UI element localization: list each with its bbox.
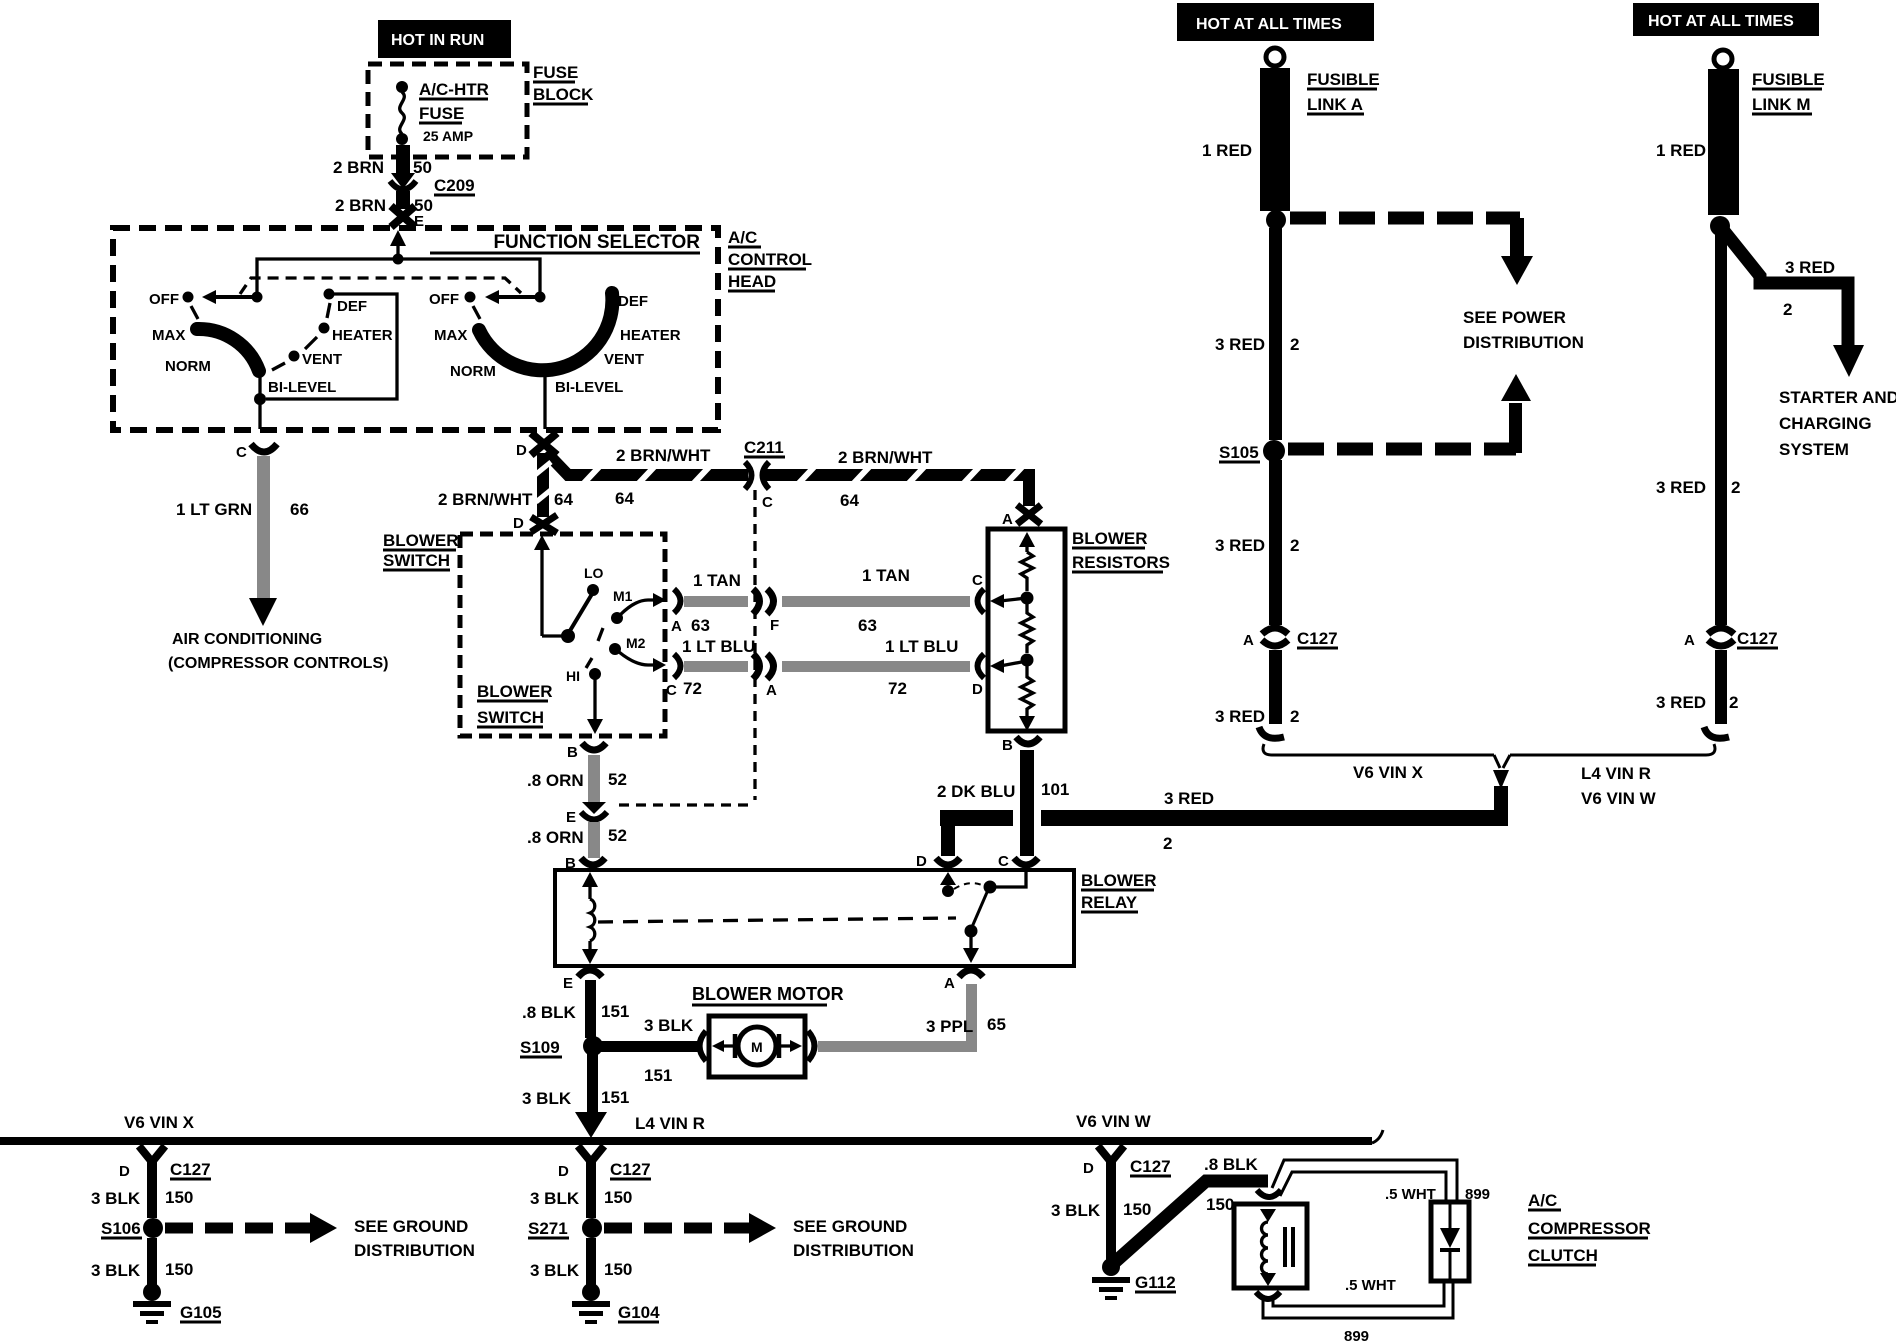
- svg-text:3 RED: 3 RED: [1656, 478, 1706, 497]
- svg-text:.8 ORN: .8 ORN: [527, 828, 584, 847]
- svg-text:DISTRIBUTION: DISTRIBUTION: [354, 1241, 475, 1260]
- wire .8 ORN 52 lower: [588, 822, 600, 858]
- exit arrow to B: [1019, 716, 1035, 731]
- dashed lead to ground distribution mid: [604, 1223, 749, 1234]
- svg-text:150: 150: [604, 1260, 632, 1279]
- connector A at blower resistors: [1017, 505, 1041, 524]
- svg-text:BI-LEVEL: BI-LEVEL: [268, 379, 336, 396]
- svg-text:(COMPRESSOR CONTROLS): (COMPRESSOR CONTROLS): [168, 655, 388, 672]
- coil exit arrow: [1260, 1273, 1276, 1286]
- contact M2: [609, 643, 621, 655]
- wire 2 BRN/WHT down to blower switch: [537, 453, 549, 517]
- svg-text:FUSIBLE: FUSIBLE: [1752, 70, 1825, 89]
- svg-text:V6 VIN W: V6 VIN W: [1076, 1112, 1152, 1131]
- svg-text:V6 VIN X: V6 VIN X: [1353, 763, 1424, 782]
- svg-text:VENT: VENT: [604, 351, 644, 368]
- svg-text:AIR CONDITIONING: AIR CONDITIONING: [172, 631, 322, 648]
- svg-text:E: E: [563, 975, 573, 992]
- wire feed bus: [257, 259, 540, 296]
- wire HI to pin B: [593, 676, 596, 724]
- ground G112: [1102, 1258, 1120, 1276]
- left switch wiper arrow: [252, 292, 263, 303]
- motor connector right: [808, 1031, 815, 1061]
- svg-text:64: 64: [554, 490, 573, 509]
- svg-text:A/C-HTR: A/C-HTR: [419, 80, 489, 99]
- connector D at control head: [531, 433, 557, 455]
- wire 3 BLK 150 upper left: [147, 1178, 157, 1218]
- HOT AT ALL TIMES banner left: [1177, 3, 1374, 41]
- fusible link A: [1260, 68, 1290, 211]
- svg-text:M: M: [751, 1039, 763, 1055]
- contact M1: [611, 612, 623, 624]
- A/C-HTR fuse: [396, 81, 408, 93]
- wire junction down to 3 RED feed: [1494, 786, 1508, 826]
- clutch plates: [1283, 1227, 1287, 1267]
- wire .8 ORN 52 upper: [588, 755, 600, 802]
- resistor 3: [1021, 666, 1033, 718]
- svg-text:1 LT BLU: 1 LT BLU: [885, 637, 958, 656]
- connector C127 right power: [1708, 628, 1734, 634]
- arrow to compressor controls: [249, 598, 277, 626]
- wire .8 BLK 150 diagonal: [1115, 1181, 1268, 1262]
- wire 3 BLK 150 lower left: [147, 1238, 157, 1286]
- blower motor box: [709, 1016, 805, 1077]
- svg-text:52: 52: [608, 770, 627, 789]
- ground G105: [143, 1283, 161, 1301]
- svg-text:A: A: [671, 618, 682, 635]
- HOT IN RUN banner: [378, 20, 511, 58]
- connector D relay: [936, 858, 960, 865]
- svg-text:C: C: [998, 853, 1009, 870]
- svg-text:SEE POWER: SEE POWER: [1463, 308, 1566, 327]
- svg-text:L4 VIN R: L4 VIN R: [635, 1114, 705, 1133]
- svg-text:FUSE: FUSE: [419, 104, 464, 123]
- svg-text:MAX: MAX: [434, 327, 467, 344]
- wire C209 to control head: [396, 191, 410, 209]
- connector at clutch coil: [1257, 1190, 1281, 1197]
- svg-text:RESISTORS: RESISTORS: [1072, 553, 1170, 572]
- connector E at control head: [391, 206, 415, 227]
- contact LO: [587, 584, 599, 596]
- svg-text:F: F: [770, 617, 779, 634]
- svg-text:HI: HI: [566, 668, 580, 684]
- svg-text:FUSE: FUSE: [533, 63, 578, 82]
- svg-text:63: 63: [858, 616, 877, 635]
- wire 1 TAN left: [684, 596, 748, 607]
- svg-text:E: E: [566, 809, 576, 826]
- svg-text:VENT: VENT: [302, 351, 342, 368]
- wire 3 BLK 151 to motor: [600, 1041, 698, 1052]
- node feed junction: [393, 254, 404, 265]
- svg-text:CONTROL: CONTROL: [728, 250, 812, 269]
- svg-text:.5 WHT: .5 WHT: [1385, 1186, 1436, 1203]
- wire 2 DK BLU 101: [1020, 750, 1034, 856]
- splice S106: [143, 1218, 163, 1238]
- svg-text:25 AMP: 25 AMP: [423, 128, 473, 144]
- connector C127 left power: [1262, 628, 1288, 634]
- relay coil: [582, 872, 598, 887]
- svg-text:SEE GROUND: SEE GROUND: [354, 1217, 468, 1236]
- svg-text:LINK A: LINK A: [1307, 95, 1363, 114]
- svg-text:65: 65: [987, 1015, 1006, 1034]
- pin C feed to common: [996, 870, 1026, 887]
- svg-text:C209: C209: [434, 176, 475, 195]
- resistor 2: [1021, 604, 1033, 653]
- svg-text:3 BLK: 3 BLK: [644, 1016, 694, 1035]
- ground G104: [582, 1283, 600, 1301]
- connector C relay: [1014, 858, 1038, 865]
- connector E relay output: [578, 970, 602, 977]
- svg-text:V6 VIN X: V6 VIN X: [124, 1113, 195, 1132]
- svg-text:SWITCH: SWITCH: [383, 551, 450, 570]
- motor entry arrow right: [779, 1044, 792, 1047]
- coil entry arrow: [1260, 1209, 1276, 1222]
- svg-text:D: D: [558, 1163, 569, 1180]
- svg-text:64: 64: [615, 489, 634, 508]
- dashed feed from power distribution: [1288, 443, 1516, 456]
- svg-text:S109: S109: [520, 1038, 560, 1057]
- svg-text:HEAD: HEAD: [728, 272, 776, 291]
- wire to pin C with arrow: [1000, 598, 1027, 601]
- wire 3 BLK 150 right: [1106, 1178, 1116, 1260]
- svg-text:BLOWER: BLOWER: [477, 682, 553, 701]
- svg-text:D: D: [513, 515, 524, 532]
- svg-text:COMPRESSOR: COMPRESSOR: [1528, 1219, 1651, 1238]
- svg-text:3 BLK: 3 BLK: [91, 1189, 141, 1208]
- svg-text:151: 151: [644, 1066, 672, 1085]
- svg-text:A: A: [766, 682, 777, 699]
- svg-text:CHARGING: CHARGING: [1779, 414, 1872, 433]
- connector C blower switch: [674, 654, 681, 678]
- left switch VENT contact: [289, 351, 300, 362]
- svg-text:V6 VIN W: V6 VIN W: [1581, 789, 1657, 808]
- connector B relay: [581, 858, 605, 865]
- svg-text:A: A: [1243, 632, 1254, 649]
- svg-text:FUNCTION SELECTOR: FUNCTION SELECTOR: [493, 232, 700, 253]
- wire .5 WHT 899 top: [1272, 1160, 1457, 1202]
- junction arrow down: [1494, 755, 1510, 768]
- svg-text:2 BRN/WHT: 2 BRN/WHT: [438, 490, 533, 509]
- svg-text:BLOWER: BLOWER: [383, 531, 459, 550]
- clutch coil: [1262, 1222, 1268, 1274]
- svg-text:2: 2: [1290, 536, 1299, 555]
- fusible link M: [1708, 69, 1739, 215]
- svg-text:2 BRN/WHT: 2 BRN/WHT: [616, 446, 711, 465]
- right switch contact arc MAX-DEF: [479, 293, 612, 370]
- ground bus wire: [0, 1137, 1372, 1145]
- svg-text:150: 150: [1123, 1200, 1151, 1219]
- wire .8 BLK 151: [585, 980, 596, 1038]
- connector B blower switch: [582, 743, 606, 750]
- mechanical gang dashed link: [240, 278, 521, 294]
- svg-text:DISTRIBUTION: DISTRIBUTION: [1463, 333, 1584, 352]
- svg-text:BLOWER: BLOWER: [1072, 529, 1148, 548]
- svg-text:DEF: DEF: [337, 298, 367, 315]
- wire 3 BLK 150 lower mid: [586, 1238, 596, 1286]
- arm to pin A arrow: [969, 936, 972, 950]
- svg-text:150: 150: [165, 1260, 193, 1279]
- svg-text:72: 72: [888, 679, 907, 698]
- wire 3 PPL 65: [818, 1041, 966, 1052]
- relay armature dashed link: [598, 918, 956, 922]
- svg-text:2: 2: [1731, 478, 1740, 497]
- svg-text:A: A: [944, 975, 955, 992]
- splice S271: [582, 1218, 602, 1238]
- svg-text:.8 BLK: .8 BLK: [1204, 1155, 1259, 1174]
- svg-text:150: 150: [1206, 1195, 1234, 1214]
- svg-text:C: C: [666, 682, 677, 699]
- ring terminal: [1266, 48, 1284, 66]
- svg-text:3 RED: 3 RED: [1656, 693, 1706, 712]
- wiper pivot: [561, 629, 575, 643]
- right switch wiper arrow: [535, 292, 546, 303]
- left switch DEF feedback wire: [266, 294, 397, 399]
- svg-text:A/C: A/C: [728, 228, 757, 247]
- NC contact dashed curve: [954, 883, 984, 889]
- wire 3 RED 2 link M down: [1715, 232, 1727, 625]
- svg-text:RELAY: RELAY: [1081, 893, 1138, 912]
- blower switch box: [460, 534, 665, 736]
- wire 1 LT BLU right: [782, 661, 970, 672]
- node C junction: [1021, 592, 1034, 605]
- left switch DEF contact: [324, 289, 335, 300]
- blower relay box: [555, 870, 1074, 966]
- svg-text:D: D: [916, 853, 927, 870]
- end connector hook right column: [1704, 727, 1729, 738]
- clutch coil box: [1234, 1204, 1307, 1288]
- blower resistors box: [988, 529, 1065, 731]
- wire 1 TAN right: [782, 596, 970, 607]
- right switch OFF contact: [465, 292, 476, 303]
- svg-text:2: 2: [1290, 335, 1299, 354]
- svg-text:3 RED: 3 RED: [1215, 335, 1265, 354]
- svg-text:D: D: [516, 442, 527, 459]
- svg-text:1 TAN: 1 TAN: [693, 571, 741, 590]
- svg-text:2: 2: [1290, 707, 1299, 726]
- connector D at blower switch: [531, 515, 557, 533]
- svg-text:3 BLK: 3 BLK: [91, 1261, 141, 1280]
- svg-text:OFF: OFF: [429, 291, 459, 308]
- svg-text:BI-LEVEL: BI-LEVEL: [555, 379, 623, 396]
- svg-text:HEATER: HEATER: [620, 327, 681, 344]
- motor M symbol: [738, 1027, 776, 1065]
- svg-text:MAX: MAX: [152, 327, 185, 344]
- svg-text:1 RED: 1 RED: [1202, 141, 1252, 160]
- svg-text:DEF: DEF: [618, 293, 648, 310]
- svg-text:150: 150: [604, 1188, 632, 1207]
- connector below coil: [1256, 1292, 1280, 1299]
- position dashes M1-M2-HI: [598, 628, 603, 641]
- connector B resistors: [1016, 737, 1040, 744]
- svg-text:2 BRN/WHT: 2 BRN/WHT: [838, 448, 933, 467]
- connector E inline: [582, 802, 606, 814]
- left switch HEATER contact: [319, 323, 330, 334]
- connector C211 boundary dashed line: [612, 490, 755, 805]
- svg-text:HEATER: HEATER: [332, 327, 393, 344]
- wiper arm to LO: [568, 594, 592, 634]
- svg-text:BLOWER: BLOWER: [1081, 871, 1157, 890]
- node D junction: [1021, 654, 1034, 667]
- svg-text:3 RED: 3 RED: [1164, 789, 1214, 808]
- svg-text:BLOCK: BLOCK: [533, 85, 594, 104]
- svg-text:SWITCH: SWITCH: [477, 708, 544, 727]
- connector C211 TAN: [753, 589, 760, 614]
- svg-text:3 BLK: 3 BLK: [1051, 1201, 1101, 1220]
- svg-text:A: A: [1002, 511, 1013, 528]
- svg-text:101: 101: [1041, 780, 1069, 799]
- svg-text:HOT IN RUN: HOT IN RUN: [391, 32, 484, 49]
- wire 3 RED 2 S105 to C127: [1269, 460, 1282, 625]
- wire M1 to pin A: [620, 600, 658, 615]
- entry arrow from E: [396, 240, 399, 259]
- diode: [1449, 1204, 1452, 1228]
- motor entry arrow left: [722, 1044, 736, 1047]
- svg-text:C: C: [762, 494, 773, 511]
- dashed feed to power distribution: [1290, 212, 1520, 225]
- left switch output node: [254, 393, 266, 405]
- svg-text:3 RED: 3 RED: [1215, 536, 1265, 555]
- svg-text:A: A: [1684, 632, 1695, 649]
- left switch OFF contact: [183, 292, 194, 303]
- wire 3 RED 2 C127 to junction: [1269, 650, 1282, 724]
- svg-text:3 PPL: 3 PPL: [926, 1017, 973, 1036]
- svg-text:D: D: [119, 1163, 130, 1180]
- svg-text:NORM: NORM: [165, 358, 211, 375]
- connector C211 in BRN/WHT wire: [748, 463, 765, 488]
- wire 3 RED 2 C127 to junction right: [1715, 650, 1727, 724]
- svg-text:3 BLK: 3 BLK: [530, 1189, 580, 1208]
- svg-text:899: 899: [1344, 1328, 1369, 1344]
- svg-text:.8 ORN: .8 ORN: [527, 771, 584, 790]
- ring terminal right: [1714, 50, 1732, 68]
- left switch contact arc MAX-BILEVEL: [197, 329, 259, 371]
- wire right arc bottom to output D: [543, 373, 546, 429]
- svg-text:C211: C211: [744, 438, 784, 457]
- wire to pin D with arrow: [1000, 661, 1027, 666]
- wire 3 BLK 150 upper mid: [586, 1178, 596, 1218]
- svg-text:G104: G104: [618, 1303, 660, 1322]
- svg-text:.8 BLK: .8 BLK: [522, 1003, 577, 1022]
- svg-text:L4 VIN R: L4 VIN R: [1581, 764, 1651, 783]
- svg-text:2: 2: [1729, 693, 1738, 712]
- svg-text:M2: M2: [626, 635, 646, 651]
- svg-text:NORM: NORM: [450, 363, 496, 380]
- branch to starter and charging: [1724, 231, 1848, 345]
- wire .5 WHT 899 bottom: [1273, 1281, 1444, 1306]
- splice S109: [583, 1036, 603, 1056]
- splice S105: [1263, 440, 1285, 462]
- connector C at control head: [251, 444, 277, 452]
- svg-text:150: 150: [165, 1188, 193, 1207]
- entry arrow from D: [540, 545, 543, 636]
- merge wire left to junction: [1263, 744, 1494, 755]
- motor connector left: [700, 1031, 707, 1061]
- node below link M: [1710, 216, 1730, 236]
- dashed lead to ground distribution: [165, 1223, 310, 1234]
- svg-text:1 RED: 1 RED: [1656, 141, 1706, 160]
- wire 3 RED 2 link A to S105: [1269, 228, 1282, 440]
- left switch position dashes: [327, 303, 330, 318]
- connector A relay output: [959, 970, 983, 977]
- wiper feed line: [542, 634, 566, 637]
- svg-text:HOT AT ALL TIMES: HOT AT ALL TIMES: [1196, 16, 1342, 33]
- svg-text:1 TAN: 1 TAN: [862, 566, 910, 585]
- svg-text:66: 66: [290, 500, 309, 519]
- connector C209: [391, 173, 415, 189]
- connector A blower switch: [674, 589, 681, 613]
- wire 1 LT BLU left: [684, 661, 748, 672]
- svg-text:151: 151: [601, 1088, 629, 1107]
- svg-text:2 DK BLU: 2 DK BLU: [937, 782, 1015, 801]
- svg-text:SEE GROUND: SEE GROUND: [793, 1217, 907, 1236]
- pin C connector: [978, 589, 985, 613]
- svg-text:2: 2: [1783, 300, 1792, 319]
- resistor 1: [1021, 552, 1033, 591]
- svg-text:C127: C127: [1297, 629, 1338, 648]
- svg-text:G112: G112: [1135, 1273, 1176, 1292]
- svg-text:B: B: [567, 744, 578, 761]
- svg-text:D: D: [972, 681, 983, 698]
- svg-text:3 RED: 3 RED: [1215, 707, 1265, 726]
- svg-text:3 BLK: 3 BLK: [530, 1261, 580, 1280]
- svg-text:C: C: [236, 444, 247, 461]
- svg-text:2: 2: [1163, 834, 1172, 853]
- svg-text:M1: M1: [613, 588, 633, 604]
- arrow into ground bus: [575, 1112, 607, 1138]
- svg-text:C127: C127: [1130, 1157, 1171, 1176]
- svg-text:SYSTEM: SYSTEM: [1779, 440, 1849, 459]
- svg-text:LINK M: LINK M: [1752, 95, 1811, 114]
- svg-text:S106: S106: [101, 1219, 141, 1238]
- svg-text:C127: C127: [610, 1160, 651, 1179]
- contact HI: [589, 668, 601, 680]
- svg-text:64: 64: [840, 491, 859, 510]
- svg-text:S271: S271: [528, 1219, 568, 1238]
- relay switch arm: [972, 890, 988, 927]
- svg-text:OFF: OFF: [149, 291, 179, 308]
- end connector hook left column: [1259, 727, 1284, 738]
- svg-text:2 BRN: 2 BRN: [333, 158, 384, 177]
- HOT AT ALL TIMES banner right: [1633, 3, 1819, 36]
- node below link A: [1266, 210, 1286, 230]
- svg-text:G105: G105: [180, 1303, 222, 1322]
- pin D connector: [978, 654, 985, 678]
- entry arrow from A: [1025, 540, 1028, 552]
- fuse block box: [368, 64, 527, 157]
- wire arc bottom to output C: [258, 369, 261, 429]
- pin D entry arrow: [940, 872, 956, 885]
- svg-text:B: B: [1002, 737, 1013, 754]
- svg-text:A/C: A/C: [1528, 1191, 1557, 1210]
- svg-text:S105: S105: [1219, 443, 1259, 462]
- svg-text:CLUTCH: CLUTCH: [1528, 1246, 1598, 1265]
- svg-text:.5 WHT: .5 WHT: [1345, 1277, 1396, 1294]
- svg-text:50: 50: [413, 158, 432, 177]
- diode box: [1431, 1202, 1469, 1281]
- svg-text:DISTRIBUTION: DISTRIBUTION: [793, 1241, 914, 1260]
- svg-text:72: 72: [683, 679, 702, 698]
- wire fuse to C209: [396, 145, 410, 175]
- svg-text:151: 151: [601, 1002, 629, 1021]
- wire M2 to pin C: [619, 652, 658, 665]
- svg-text:1 LT GRN: 1 LT GRN: [176, 500, 252, 519]
- wire 2 BRN/WHT horizontal run: [546, 452, 1029, 506]
- svg-text:C: C: [972, 572, 983, 589]
- svg-text:C127: C127: [1737, 629, 1778, 648]
- svg-text:3 BLK: 3 BLK: [522, 1089, 572, 1108]
- merge wire right to junction: [1510, 744, 1715, 755]
- wire 3 BLK 151 to ground bus: [587, 1054, 598, 1116]
